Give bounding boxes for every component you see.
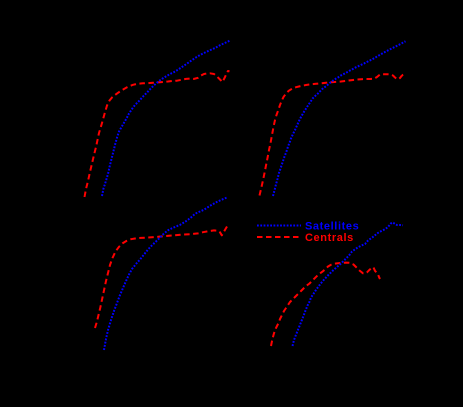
legend satellites sample line	[257, 225, 301, 227]
svg-text:Satellites: Satellites	[305, 221, 359, 233]
bottom-left panel centrals curve (red dashed)	[95, 224, 229, 328]
bottom-right panel satellites curve (blue dotted)	[293, 223, 404, 347]
top-right panel satellites curve (blue dotted)	[273, 41, 406, 196]
bottom-right panel centrals curve (red dashed)	[271, 263, 380, 346]
legend centrals sample line	[257, 236, 301, 238]
svg-text:Centrals: Centrals	[305, 232, 354, 244]
top-left panel satellites curve (blue dotted)	[102, 41, 230, 196]
bottom-left panel satellites curve (blue dotted)	[104, 197, 228, 350]
top-right panel centrals curve (red dashed)	[260, 74, 405, 195]
top-left panel centrals curve (red dashed)	[85, 71, 230, 197]
